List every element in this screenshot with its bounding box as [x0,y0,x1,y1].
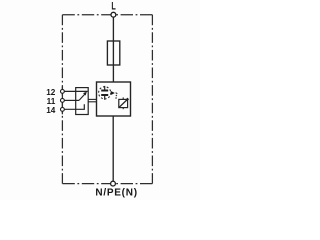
varistor [119,97,129,109]
terminal 11 [61,99,65,103]
enclosure dash-dot outline [62,15,152,184]
changeover contact box [76,88,89,115]
label 12 [46,88,56,97]
svg-text:N/PE(N): N/PE(N) [95,188,137,199]
wire SPD box to N terminal [112,116,114,184]
svg-text:L: L [111,1,116,13]
label N/PE(N) [95,188,137,199]
wire terminal 14 to contact (with hook) [64,104,84,109]
wire L to SPD box (through fuse) [112,15,114,82]
SPD module box [97,82,131,116]
terminal L [111,12,116,17]
svg-text:11: 11 [47,97,56,106]
spark gap [99,86,111,100]
terminal 14 [61,108,65,112]
mechanical linkage [88,99,96,101]
contact lever with arrow [79,92,87,100]
svg-text:14: 14 [46,106,56,115]
wire terminal 11 to contact [64,99,79,101]
trigger arrow (dashed, from varistor to spark gap) [111,91,117,98]
wire terminal 12 to contact [64,90,87,92]
label 11 [47,97,56,106]
svg-text:12: 12 [46,88,56,97]
fuse [107,41,119,65]
label 14 [46,106,56,115]
label L [111,1,116,13]
wire segment through signalling terminals [61,87,63,115]
terminal 12 [61,90,65,94]
terminal N/PE(N) [111,181,116,186]
